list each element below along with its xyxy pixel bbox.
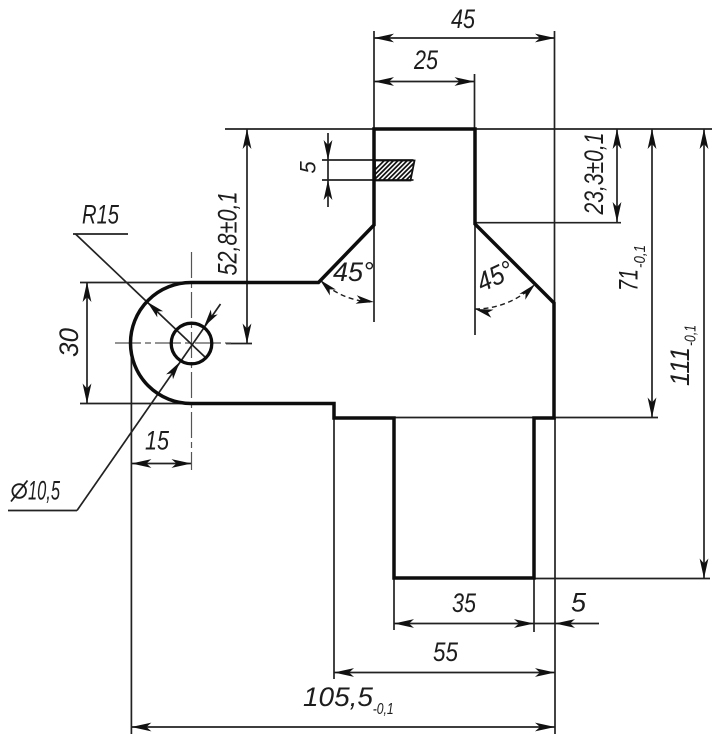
svg-text:111: 111 [665, 347, 695, 386]
svg-text:-0,1: -0,1 [683, 325, 700, 346]
svg-text:-0,1: -0,1 [632, 245, 649, 268]
svg-text:71: 71 [614, 269, 644, 291]
svg-text:52,8±0,1: 52,8±0,1 [213, 192, 243, 276]
svg-text:25: 25 [413, 45, 439, 75]
svg-text:45: 45 [451, 4, 476, 34]
svg-text:23,3±0,1: 23,3±0,1 [579, 133, 609, 216]
svg-text:5: 5 [571, 588, 587, 618]
svg-text:R15: R15 [82, 200, 120, 230]
svg-text:45°: 45° [333, 257, 374, 287]
svg-text:30: 30 [54, 328, 84, 357]
svg-text:105,5: 105,5 [303, 682, 374, 712]
svg-text:5: 5 [296, 161, 321, 174]
svg-text:10,5: 10,5 [28, 476, 61, 506]
svg-text:35: 35 [452, 588, 477, 618]
svg-text:15: 15 [145, 426, 170, 456]
svg-text:-0,1: -0,1 [373, 701, 394, 718]
svg-text:55: 55 [433, 637, 459, 667]
